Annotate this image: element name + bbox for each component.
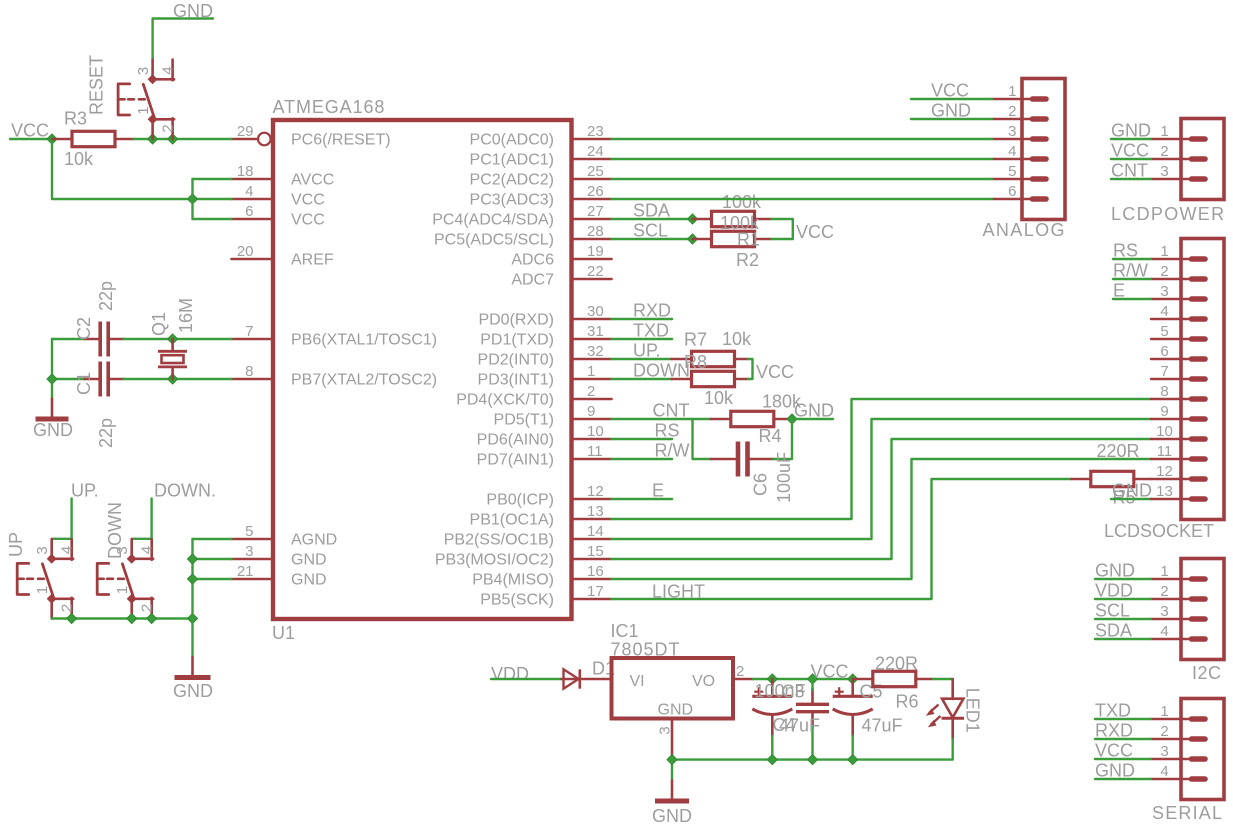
junction C3 tap bbox=[808, 674, 818, 684]
svg-text:C2: C2 bbox=[74, 317, 94, 340]
svg-text:9: 9 bbox=[587, 403, 595, 420]
svg-text:3: 3 bbox=[34, 546, 51, 554]
connector JP LCDSOCKET (LCDSOCKET) bbox=[1151, 239, 1224, 520]
svg-text:28: 28 bbox=[587, 223, 604, 240]
LED LED1 bbox=[926, 679, 964, 739]
U1 pin 1 PD3(INT1) bbox=[478, 363, 612, 389]
svg-text:220R: 220R bbox=[875, 654, 918, 674]
svg-text:R1: R1 bbox=[737, 230, 760, 250]
diode D1 bbox=[562, 669, 612, 688]
wire C1 row bbox=[52, 378, 85, 380]
svg-text:SDA: SDA bbox=[633, 201, 670, 221]
wire C2 to crystal bbox=[124, 338, 232, 340]
junction C3 gnd bbox=[808, 755, 818, 765]
wire net R/W bbox=[1113, 278, 1151, 280]
svg-text:R2: R2 bbox=[736, 250, 759, 270]
U1 pin 26 PC3(ADC3) bbox=[470, 183, 612, 209]
svg-text:4: 4 bbox=[1160, 623, 1168, 640]
junction C5/R6 tap bbox=[848, 674, 858, 684]
svg-text:GND: GND bbox=[931, 101, 971, 121]
svg-text:31: 31 bbox=[587, 323, 604, 340]
wire GND pin3 bbox=[193, 558, 232, 560]
svg-text:GND: GND bbox=[291, 572, 327, 589]
wire net SDA bbox=[1095, 638, 1151, 640]
svg-text:C3: C3 bbox=[782, 682, 805, 702]
wire to power ground bbox=[671, 760, 673, 781]
svg-text:12: 12 bbox=[1156, 463, 1173, 480]
wire R3 to pin 29 bbox=[134, 138, 232, 140]
wire DOWN switch top bbox=[132, 499, 152, 539]
svg-text:VDD: VDD bbox=[1095, 581, 1133, 601]
svg-text:Q1: Q1 bbox=[149, 312, 169, 336]
svg-text:CNT: CNT bbox=[653, 401, 690, 421]
svg-text:LCDSOCKET: LCDSOCKET bbox=[1104, 521, 1214, 541]
junction switch pin2 bbox=[168, 134, 178, 144]
junction C1/GND bbox=[47, 374, 57, 384]
wire net GND bbox=[1095, 778, 1151, 780]
ground power GND bbox=[655, 781, 689, 802]
U1 pin 17 PB5(SCK) bbox=[480, 583, 611, 609]
svg-text:26: 26 bbox=[587, 183, 604, 200]
svg-text:R3: R3 bbox=[64, 109, 87, 129]
svg-text:11: 11 bbox=[587, 443, 603, 460]
wire R1/R2 to VCC bbox=[772, 219, 793, 239]
svg-text:GND: GND bbox=[658, 702, 694, 719]
U1 pin 11 PD7(AIN1) bbox=[477, 443, 612, 469]
junction switch pin1 bbox=[148, 134, 158, 144]
wire C5 to ground bus bbox=[852, 736, 854, 760]
junction C5 gnd bbox=[848, 755, 858, 765]
U1 pin 10 PD6(AIN0) bbox=[477, 423, 612, 449]
wire GND analog bbox=[911, 118, 992, 120]
wire net GND bbox=[1111, 138, 1151, 140]
svg-text:7: 7 bbox=[245, 323, 253, 340]
svg-text:C6: C6 bbox=[751, 473, 771, 496]
svg-text:VCC: VCC bbox=[1095, 741, 1133, 761]
crystal Q1 bbox=[158, 339, 187, 379]
U1 pin 32 PD2(INT0) bbox=[478, 343, 612, 369]
capacitor C6 left lead red bbox=[711, 458, 735, 461]
svg-text:4: 4 bbox=[1008, 143, 1016, 160]
svg-text:AGND: AGND bbox=[291, 532, 337, 549]
resistor R6 right lead bbox=[916, 678, 934, 681]
U1 pin 4 VCC bbox=[232, 183, 325, 209]
JP SERIAL pin numbers bbox=[1160, 703, 1168, 780]
svg-text:180k: 180k bbox=[762, 392, 802, 412]
svg-text:GND: GND bbox=[33, 420, 73, 440]
U1 pin 24 PC1(ADC1) bbox=[470, 143, 612, 169]
wire PC2 to analog5 bbox=[612, 178, 993, 180]
junction VCC/R3 bbox=[47, 134, 57, 144]
svg-text:1: 1 bbox=[135, 106, 152, 114]
wire switches to GND bbox=[52, 617, 193, 619]
wire PC3 to analog6 bbox=[612, 198, 993, 200]
junction C4 tap bbox=[767, 674, 777, 684]
wire VO to VCC rail bbox=[753, 678, 853, 680]
svg-text:4: 4 bbox=[1160, 303, 1168, 320]
voltage regulator IC1 7805DT box bbox=[612, 658, 734, 719]
wire PC0 to analog3 bbox=[612, 138, 993, 140]
svg-text:6: 6 bbox=[1160, 343, 1168, 360]
IC1 output lead bbox=[733, 678, 753, 681]
resistor R1 bbox=[712, 211, 755, 226]
svg-text:5: 5 bbox=[1160, 323, 1168, 340]
svg-text:VCC: VCC bbox=[11, 121, 49, 141]
junction regulator GND bbox=[667, 755, 677, 765]
wire AVCC branch bbox=[193, 178, 232, 180]
svg-text:PC0(ADC0): PC0(ADC0) bbox=[470, 132, 554, 149]
svg-text:PB3(MOSI/OC2): PB3(MOSI/OC2) bbox=[435, 552, 554, 569]
svg-text:PD6(AIN0): PD6(AIN0) bbox=[477, 432, 554, 449]
svg-text:11: 11 bbox=[1157, 443, 1173, 460]
wire C3 to ground bus bbox=[811, 727, 813, 760]
svg-text:13: 13 bbox=[587, 503, 604, 520]
svg-text:RESET: RESET bbox=[87, 55, 107, 115]
svg-text:16M: 16M bbox=[176, 298, 196, 333]
wire PB4 to LCD pin11 bbox=[612, 459, 1152, 579]
wire net RXD bbox=[1095, 738, 1151, 740]
svg-text:3: 3 bbox=[1160, 743, 1168, 760]
junction S3 pin1 bbox=[127, 614, 137, 624]
svg-text:10k: 10k bbox=[722, 329, 752, 349]
U1 pin 23 PC0(ADC0) bbox=[470, 123, 612, 149]
wire C3 top bbox=[811, 679, 813, 690]
svg-text:2: 2 bbox=[1160, 143, 1168, 160]
connector JP LCDPOWER (LCDPOWER) bbox=[1151, 119, 1224, 200]
JP LCDSOCKET pin numbers bbox=[1156, 243, 1173, 500]
connector JP ANALOG (ANALOG) bbox=[992, 79, 1065, 220]
JP ANALOG pin numbers bbox=[1008, 83, 1016, 200]
svg-text:RS: RS bbox=[1113, 241, 1138, 261]
U1 pin 21 GND bbox=[232, 563, 327, 589]
wire RS bbox=[612, 438, 673, 440]
svg-text:R7: R7 bbox=[684, 330, 707, 350]
svg-text:3: 3 bbox=[245, 543, 253, 560]
wire CNT branch to C6 bbox=[693, 419, 712, 459]
svg-text:PD2(INT0): PD2(INT0) bbox=[478, 352, 554, 369]
svg-text:220R: 220R bbox=[1097, 441, 1140, 461]
resistor R7 left lead bbox=[672, 378, 692, 381]
capacitor C3 bbox=[796, 689, 829, 728]
wire net GND bbox=[1095, 578, 1151, 580]
wire net VCC bbox=[1095, 758, 1151, 760]
junction SCL/R2 bbox=[688, 234, 698, 244]
IC U1 ATMEGA168 box bbox=[273, 120, 572, 619]
U1 pin 18 AVCC bbox=[232, 163, 335, 189]
svg-text:2: 2 bbox=[1160, 583, 1168, 600]
svg-text:2: 2 bbox=[587, 383, 595, 400]
svg-text:22p: 22p bbox=[96, 281, 116, 311]
resistor R1 right lead bbox=[754, 218, 771, 221]
svg-text:PC5(ADC5/SCL): PC5(ADC5/SCL) bbox=[434, 232, 554, 249]
svg-text:1: 1 bbox=[1160, 243, 1168, 260]
U1 pin 19 ADC6 bbox=[511, 243, 611, 269]
svg-text:C1: C1 bbox=[74, 372, 94, 395]
svg-text:PC2(ADC2): PC2(ADC2) bbox=[470, 172, 554, 189]
junction GND pin21 bbox=[188, 574, 198, 584]
wire VCC pin6 branch bbox=[193, 218, 232, 220]
junction crystal bottom bbox=[168, 374, 178, 384]
resistor R3 right lead bbox=[115, 138, 134, 141]
svg-text:8: 8 bbox=[1160, 383, 1168, 400]
svg-text:25: 25 bbox=[587, 163, 604, 180]
svg-text:PD7(AIN1): PD7(AIN1) bbox=[477, 452, 554, 469]
junction S2 pin2 bbox=[67, 614, 77, 624]
wire E bbox=[612, 498, 673, 500]
svg-text:10k: 10k bbox=[64, 149, 94, 169]
svg-text:PC1(ADC1): PC1(ADC1) bbox=[470, 152, 554, 169]
U1 pin 22 ADC7 bbox=[511, 263, 611, 289]
svg-text:6: 6 bbox=[1008, 183, 1016, 200]
wire DOWN bbox=[612, 378, 672, 380]
svg-text:17: 17 bbox=[587, 583, 604, 600]
svg-text:5: 5 bbox=[1008, 163, 1016, 180]
svg-text:8: 8 bbox=[245, 363, 253, 380]
svg-text:RXD: RXD bbox=[1095, 721, 1133, 741]
svg-text:PB2(SS/OC1B): PB2(SS/OC1B) bbox=[444, 532, 554, 549]
svg-text:15: 15 bbox=[587, 543, 604, 560]
polarized capacitor C5 bbox=[833, 679, 873, 736]
wire PC1 to analog4 bbox=[612, 158, 993, 160]
ground crystal GND bbox=[36, 399, 69, 420]
svg-text:1: 1 bbox=[1160, 123, 1168, 140]
junction GND vertical bbox=[188, 614, 198, 624]
svg-text:UP.: UP. bbox=[633, 341, 661, 361]
switch S2 UP bbox=[17, 539, 73, 618]
svg-text:3: 3 bbox=[1160, 163, 1168, 180]
svg-text:1: 1 bbox=[114, 586, 131, 594]
JP LCDPOWER pin numbers bbox=[1160, 123, 1168, 180]
svg-text:PC6(/RESET): PC6(/RESET) bbox=[291, 132, 391, 149]
svg-text:UP: UP bbox=[6, 532, 26, 557]
resistor R5 bbox=[1091, 471, 1134, 486]
svg-text:CNT: CNT bbox=[1111, 161, 1148, 181]
wire crystal left vertical bbox=[51, 339, 53, 399]
svg-text:PB6(XTAL1/TOSC1): PB6(XTAL1/TOSC1) bbox=[291, 332, 437, 349]
switch S1 RESET pin numbers bbox=[135, 66, 177, 132]
svg-text:3: 3 bbox=[1160, 283, 1168, 300]
svg-text:E: E bbox=[1113, 281, 1125, 301]
wire ground bus bbox=[672, 739, 953, 760]
svg-text:10k: 10k bbox=[704, 388, 734, 408]
svg-text:DOWN.: DOWN. bbox=[154, 481, 216, 501]
wire PB2 to LCD pin9 bbox=[612, 419, 1152, 539]
junction GND pin3 bbox=[188, 554, 198, 564]
wire TXD bbox=[612, 338, 673, 340]
U1 pin 5 AGND bbox=[232, 523, 338, 549]
U1 pin 31 PD1(TXD) bbox=[480, 323, 611, 349]
svg-text:IC1: IC1 bbox=[611, 621, 639, 641]
svg-text:1: 1 bbox=[1008, 83, 1016, 100]
resistor R4 left lead bbox=[711, 418, 731, 421]
svg-text:20: 20 bbox=[237, 243, 254, 260]
wire CNT bbox=[612, 418, 712, 420]
svg-text:R4: R4 bbox=[759, 426, 782, 446]
wire R/W bbox=[612, 458, 673, 460]
svg-text:4: 4 bbox=[1160, 763, 1168, 780]
svg-text:29: 29 bbox=[237, 123, 254, 140]
svg-text:22: 22 bbox=[587, 263, 604, 280]
U1 pin 20 AREF bbox=[232, 243, 334, 269]
svg-text:21: 21 bbox=[237, 563, 254, 580]
U1 pin 16 PB4(MISO) bbox=[472, 563, 611, 589]
svg-text:GND: GND bbox=[1111, 121, 1151, 141]
wire AGND pin5 bbox=[193, 538, 232, 540]
wire VCC analog bbox=[911, 98, 992, 100]
svg-text:GND: GND bbox=[652, 806, 692, 826]
wire C4 to ground bus bbox=[771, 736, 773, 760]
U1 pin 12 PB0(ICP) bbox=[486, 483, 611, 509]
junction VCC branch bbox=[188, 194, 198, 204]
svg-text:ADC7: ADC7 bbox=[511, 272, 554, 289]
svg-text:4: 4 bbox=[160, 66, 177, 74]
switch S2 UP pin numbers bbox=[34, 546, 76, 612]
svg-text:ADC6: ADC6 bbox=[511, 252, 554, 269]
svg-text:7805DT: 7805DT bbox=[611, 640, 681, 660]
svg-text:1: 1 bbox=[587, 363, 595, 380]
svg-text:2: 2 bbox=[59, 604, 76, 612]
svg-text:RS: RS bbox=[655, 421, 680, 441]
svg-text:PD3(INT1): PD3(INT1) bbox=[478, 372, 554, 389]
svg-text:I2C: I2C bbox=[1192, 663, 1222, 683]
U1 pin 7 PB6(XTAL1/TOSC1) bbox=[232, 323, 438, 349]
switch S3 DOWN bbox=[97, 539, 153, 618]
svg-text:GND: GND bbox=[1095, 761, 1135, 781]
wire UP switch top bbox=[52, 499, 72, 539]
wire GND LCD pin13 bbox=[1111, 498, 1151, 500]
svg-text:2: 2 bbox=[139, 604, 156, 612]
svg-text:30: 30 bbox=[587, 303, 604, 320]
junction SDA/R1 bbox=[688, 214, 698, 224]
U1 pin 15 PB3(MOSI/OC2) bbox=[435, 543, 612, 569]
wire GND label bbox=[796, 418, 833, 420]
svg-text:4: 4 bbox=[245, 183, 253, 200]
svg-text:SERIAL: SERIAL bbox=[1152, 803, 1223, 823]
svg-text:DOWN: DOWN bbox=[105, 502, 125, 559]
svg-text:PD1(TXD): PD1(TXD) bbox=[480, 332, 554, 349]
svg-text:VCC: VCC bbox=[931, 81, 969, 101]
svg-text:TXD: TXD bbox=[1095, 701, 1131, 721]
svg-text:13: 13 bbox=[1156, 483, 1173, 500]
wire GND pin21 bbox=[193, 578, 232, 580]
resistor R8 left lead bbox=[672, 358, 692, 361]
svg-text:PD5(T1): PD5(T1) bbox=[494, 412, 554, 429]
svg-text:AVCC: AVCC bbox=[291, 172, 334, 189]
resistor R4 right lead bbox=[774, 418, 791, 421]
svg-text:E: E bbox=[652, 481, 664, 501]
svg-text:GND: GND bbox=[1095, 561, 1135, 581]
svg-text:VDD: VDD bbox=[491, 664, 529, 684]
resistor R3 bbox=[72, 131, 115, 146]
wire C1 to crystal bbox=[124, 378, 232, 380]
resistor R7 bbox=[692, 371, 735, 386]
svg-text:2: 2 bbox=[736, 663, 744, 680]
U1 pin 13 PB1(OC1A) bbox=[470, 503, 612, 529]
svg-text:U1: U1 bbox=[272, 623, 295, 643]
svg-text:ANALOG: ANALOG bbox=[983, 220, 1066, 240]
svg-text:PB5(SCK): PB5(SCK) bbox=[480, 592, 554, 609]
IC1 ground lead bbox=[671, 719, 674, 759]
svg-text:6: 6 bbox=[245, 203, 253, 220]
resistor R3 left lead bbox=[52, 138, 72, 141]
svg-text:4: 4 bbox=[139, 546, 156, 554]
svg-text:UP.: UP. bbox=[71, 481, 99, 501]
svg-text:VCC: VCC bbox=[811, 662, 849, 682]
svg-text:PD0(RXD): PD0(RXD) bbox=[478, 312, 554, 329]
wire AGND/GND vertical bbox=[191, 539, 193, 657]
U1 pin 28 PC5(ADC5/SCL) bbox=[434, 223, 612, 249]
U1 pin 25 PC2(ADC2) bbox=[470, 163, 612, 189]
svg-text:4: 4 bbox=[59, 546, 76, 554]
JP I2C pin numbers bbox=[1160, 563, 1168, 640]
svg-text:ATMEGA168: ATMEGA168 bbox=[273, 97, 386, 117]
svg-text:GND: GND bbox=[1112, 481, 1152, 501]
svg-text:10: 10 bbox=[1156, 423, 1173, 440]
resistor R6 bbox=[873, 671, 916, 686]
svg-text:LCDPOWER: LCDPOWER bbox=[1111, 204, 1225, 224]
svg-text:VCC: VCC bbox=[796, 222, 834, 242]
svg-text:12: 12 bbox=[587, 483, 604, 500]
svg-text:VCC: VCC bbox=[291, 212, 325, 229]
ground switches GND bbox=[175, 657, 211, 678]
resistor R5 left lead bbox=[1072, 478, 1092, 481]
svg-text:7: 7 bbox=[1160, 363, 1168, 380]
svg-text:10: 10 bbox=[587, 423, 604, 440]
svg-text:1: 1 bbox=[1160, 563, 1168, 580]
wire PB3 to LCD pin10 bbox=[612, 439, 1152, 559]
wire net VCC bbox=[1111, 158, 1151, 160]
svg-text:27: 27 bbox=[587, 203, 604, 220]
junction crystal top bbox=[168, 334, 178, 344]
wire net RS bbox=[1113, 258, 1151, 260]
U1 pin 14 PB2(SS/OC1B) bbox=[444, 523, 612, 549]
wire VCC junction down to pin4 row bbox=[52, 139, 232, 199]
connector JP I2C (I2C) bbox=[1151, 559, 1224, 660]
svg-text:24: 24 bbox=[587, 143, 604, 160]
wire R7/R8 to VCC bbox=[748, 359, 753, 379]
resistor R4 bbox=[731, 411, 774, 426]
wire UP bbox=[612, 358, 672, 360]
svg-text:TXD: TXD bbox=[633, 321, 669, 341]
resistor R1 left lead bbox=[693, 218, 712, 221]
svg-text:AREF: AREF bbox=[291, 252, 334, 269]
wire VDD to D1 bbox=[491, 678, 562, 680]
svg-text:16: 16 bbox=[587, 563, 604, 580]
wire VCC to junction bbox=[10, 138, 52, 140]
svg-text:PC4(ADC4/SDA): PC4(ADC4/SDA) bbox=[432, 212, 554, 229]
svg-text:32: 32 bbox=[587, 343, 604, 360]
svg-text:R6: R6 bbox=[896, 692, 919, 712]
svg-text:LED1: LED1 bbox=[963, 688, 983, 733]
svg-text:PD4(XCK/T0): PD4(XCK/T0) bbox=[456, 392, 554, 409]
svg-text:GND: GND bbox=[291, 552, 327, 569]
svg-text:3: 3 bbox=[1008, 123, 1016, 140]
connector JP SERIAL (SERIAL) bbox=[1151, 699, 1224, 800]
svg-text:PB4(MISO): PB4(MISO) bbox=[472, 572, 554, 589]
svg-text:VCC: VCC bbox=[756, 362, 794, 382]
switch S3 DOWN pin numbers bbox=[114, 546, 156, 612]
wire SDA bbox=[612, 218, 693, 220]
U1 pin 9 PD5(T1) bbox=[494, 403, 612, 429]
U1 pin 30 PD0(RXD) bbox=[478, 303, 611, 329]
svg-text:47uF: 47uF bbox=[779, 716, 820, 736]
U1 pin 2 PD4(XCK/T0) bbox=[456, 383, 611, 409]
wire C6 to GND junction bbox=[773, 419, 792, 459]
wire PB1 to LCD pin8 bbox=[612, 399, 1152, 519]
svg-text:SCL: SCL bbox=[1095, 601, 1130, 621]
resistor R5 right lead bbox=[1134, 478, 1152, 481]
wire RXD bbox=[612, 318, 673, 320]
